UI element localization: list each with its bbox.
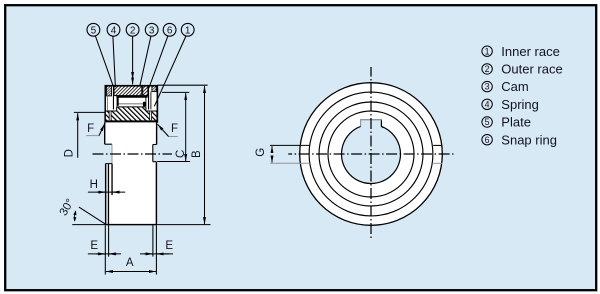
svg-text:B: B — [191, 150, 203, 158]
svg-text:F: F — [171, 123, 178, 135]
svg-text:1: 1 — [185, 25, 191, 36]
svg-text:Snap ring: Snap ring — [501, 132, 557, 147]
svg-text:5: 5 — [485, 117, 490, 127]
svg-text:G: G — [255, 148, 267, 157]
svg-text:Outer race: Outer race — [501, 62, 562, 77]
svg-text:F: F — [87, 123, 94, 135]
svg-text:4: 4 — [111, 25, 117, 36]
svg-text:Spring: Spring — [501, 97, 539, 112]
svg-text:4: 4 — [485, 99, 490, 109]
svg-text:3: 3 — [485, 82, 490, 92]
svg-text:5: 5 — [91, 25, 97, 36]
svg-text:Plate: Plate — [501, 115, 531, 130]
svg-text:6: 6 — [167, 25, 173, 36]
svg-text:A: A — [126, 257, 134, 269]
svg-text:3: 3 — [149, 25, 155, 36]
svg-text:E: E — [165, 240, 173, 252]
svg-text:H: H — [90, 179, 98, 191]
svg-text:D: D — [63, 149, 75, 157]
svg-text:Cam: Cam — [501, 79, 528, 94]
svg-text:E: E — [90, 240, 98, 252]
svg-text:C: C — [175, 150, 187, 158]
svg-text:2: 2 — [130, 25, 136, 36]
svg-text:Inner race: Inner race — [501, 44, 560, 59]
svg-text:6: 6 — [485, 135, 490, 145]
svg-text:2: 2 — [485, 64, 490, 74]
svg-text:1: 1 — [485, 46, 490, 56]
